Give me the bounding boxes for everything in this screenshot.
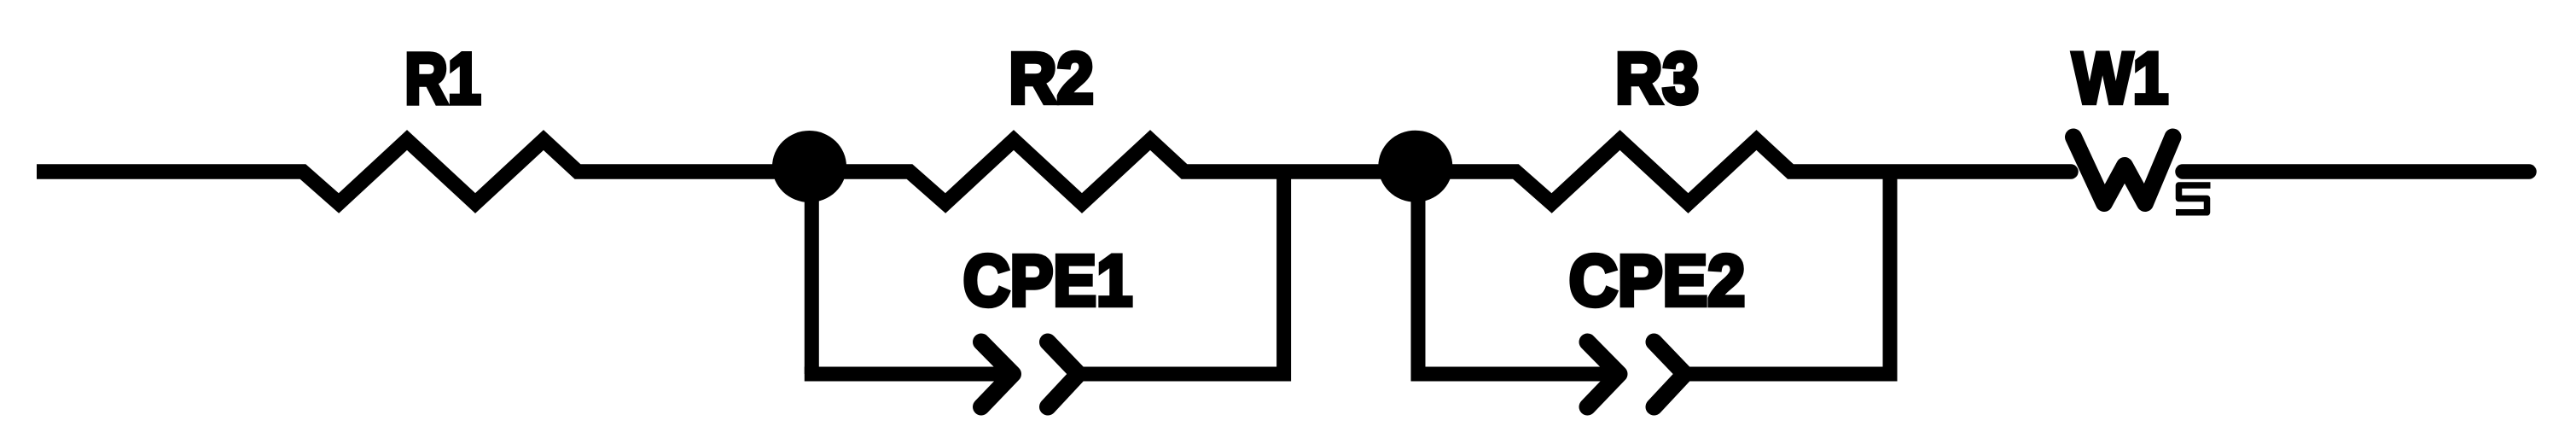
resistor R3: [1415, 140, 2071, 203]
wire block1 bottom left segment: [811, 374, 1013, 382]
capacitor CPE2: [1588, 342, 1685, 407]
wire block2 left vertical: [1411, 166, 1426, 374]
svg-text:CPE1: CPE1: [963, 241, 1133, 321]
wire right lead: [2183, 164, 2529, 179]
warburg element W1 symbol: [2073, 137, 2173, 204]
wire block2 bottom left segment: [1418, 374, 1619, 382]
wire block1 bottom right segment: [1079, 172, 1284, 374]
wire block2 bottom right segment: [1685, 172, 1891, 374]
wire block1 left vertical: [805, 166, 819, 374]
node B junction dot: [1378, 131, 1452, 202]
svg-text:R2: R2: [1009, 38, 1094, 119]
capacitor CPE1: [981, 342, 1079, 407]
svg-text:W1: W1: [2073, 38, 2169, 119]
svg-text:R1: R1: [404, 38, 481, 119]
svg-text:R3: R3: [1615, 38, 1699, 119]
resistor R2: [809, 140, 1415, 203]
resistor R1 with left lead wire: [37, 140, 809, 203]
warburg W1 subscript s: [2176, 185, 2211, 213]
node A junction dot: [772, 131, 846, 202]
svg-text:CPE2: CPE2: [1569, 241, 1746, 321]
